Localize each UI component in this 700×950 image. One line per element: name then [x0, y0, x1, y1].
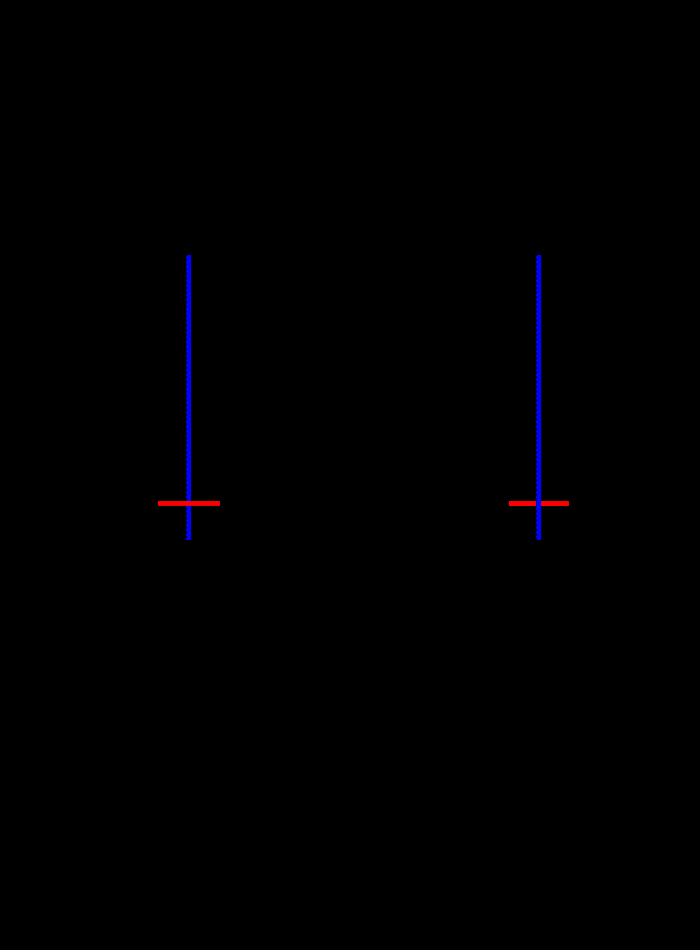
wire: dashed black guide overlapping left edge of W2 (upper part): [535, 255, 537, 501]
node D: junction of right branch and bottom rail: [536, 538, 541, 543]
node A: junction of left branch and top rail: [186, 253, 191, 258]
wire: dashed black guide overlapping left edge of W2 (lower part): [535, 506, 537, 540]
wire W1: left vertical branch (highlighted blue): [186, 255, 191, 540]
wire W2: right vertical branch (highlighted blue), drawn over C2 plate: [536, 255, 541, 540]
node C: junction of left branch and bottom rail: [186, 538, 191, 543]
node B: junction of right branch and top rail: [536, 253, 541, 258]
wire: bottom rail connecting the two branches: [189, 539, 539, 541]
capacitor C2: red plate on right branch: [509, 501, 569, 506]
capacitor C1: red plate on left branch: [158, 501, 220, 506]
wire: top rail connecting the two branches: [189, 254, 539, 256]
wire: dashed black guide overlapping left edge of W1: [185, 255, 187, 540]
